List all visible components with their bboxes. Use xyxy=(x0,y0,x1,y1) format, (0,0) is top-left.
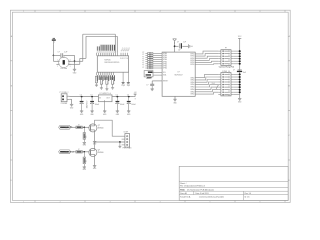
capacitor C8 (bus) xyxy=(233,69,246,74)
power symbol VCC (U2) xyxy=(173,39,177,44)
MCU U1 name labels xyxy=(105,60,120,65)
svg-text:MCP23017: MCP23017 xyxy=(175,74,183,76)
svg-text:47k: 47k xyxy=(102,81,104,84)
resistor R below MCU 1 xyxy=(95,76,99,86)
connector P4 stubs xyxy=(122,139,125,145)
ground pulldown xyxy=(83,167,87,171)
vcc bus vertical wire xyxy=(239,41,241,99)
svg-text:Pcb 4mz: Pcb 4mz xyxy=(61,68,68,70)
ground C7 xyxy=(151,88,154,90)
U2 left pin names xyxy=(163,52,168,83)
title block xyxy=(179,166,288,200)
power flag at connector xyxy=(118,142,132,150)
capacitor C1 xyxy=(58,52,69,58)
wire source to ground xyxy=(94,132,96,142)
resistor RN2 (U2 input) xyxy=(142,54,162,57)
junction U2 vcc xyxy=(174,45,176,47)
svg-text:KiCad E.D.A.: KiCad E.D.A. xyxy=(180,196,191,199)
wire power main xyxy=(69,96,98,98)
svg-text:100uF: 100uF xyxy=(120,104,125,106)
transistor Q xyxy=(89,123,104,132)
resistor RN5 (U2 input) xyxy=(142,61,162,64)
wire regulator gnd xyxy=(104,102,106,111)
wire U2 reset pin to cap xyxy=(152,80,162,82)
ground rotated right (U2 cap) xyxy=(189,44,194,48)
junction cap C2 xyxy=(81,96,83,98)
svg-text:GPB0: GPB0 xyxy=(190,56,194,58)
U2 right pin names group1 xyxy=(190,54,194,67)
pulldown resistor R xyxy=(83,152,87,167)
wire VCC to U2 xyxy=(174,41,176,52)
svg-text:eeschema (2013-mar-07)-stable: eeschema (2013-mar-07)-stable xyxy=(199,196,224,199)
svg-text:C?: C? xyxy=(177,42,179,44)
svg-text:G: G xyxy=(192,46,193,48)
MCU U1 body xyxy=(97,56,128,72)
net label slash on wire xyxy=(212,82,219,89)
svg-text:CONN_10: CONN_10 xyxy=(222,71,230,73)
svg-text:R?: R? xyxy=(142,52,144,54)
svg-text:C?: C? xyxy=(58,52,60,54)
U2 name labels xyxy=(175,72,183,77)
wires U2 to connector P3 xyxy=(195,74,218,94)
svg-text:SDA: SDA xyxy=(212,82,215,85)
svg-text:TEST: TEST xyxy=(127,47,131,53)
svg-text:UpDownRangePod: UpDownRangePod xyxy=(219,66,234,68)
svg-text:R?: R? xyxy=(142,54,144,56)
electrolytic capacitor C3 xyxy=(90,95,99,111)
wire resistor to gate xyxy=(82,151,89,153)
svg-text:+5V: +5V xyxy=(134,92,137,94)
MCU bottom pins xyxy=(96,72,115,81)
connector P2 (6 pin) xyxy=(218,48,233,66)
svg-text:C?: C? xyxy=(146,84,148,86)
svg-text:U?: U? xyxy=(178,72,180,74)
svg-text:MSP430G2553IPW20: MSP430G2553IPW20 xyxy=(105,62,120,64)
resistor R below MCU 2 xyxy=(100,78,104,90)
resistor RN7 (U2 input) xyxy=(142,65,162,68)
svg-text:GND: GND xyxy=(238,102,242,104)
series resistor R xyxy=(76,125,82,129)
wire VDD to cap node xyxy=(52,45,54,56)
wire cap to ground (rotated) xyxy=(182,45,188,47)
capacitor below MCU right 2 xyxy=(127,72,131,87)
capacitor C6 (U2 decoupling) xyxy=(177,42,186,52)
series resistor R xyxy=(76,149,82,153)
ground cap C4 xyxy=(116,111,120,116)
electrolytic capacitor C2 xyxy=(80,95,89,111)
svg-text:2: 2 xyxy=(57,66,58,68)
junction gate xyxy=(83,151,85,153)
svg-text:GND: GND xyxy=(90,114,94,116)
svg-text:C?: C? xyxy=(80,95,82,97)
svg-text:16: 16 xyxy=(126,58,128,60)
resistor RN6 (U2 input) xyxy=(142,63,162,66)
wire to capacitor C1 xyxy=(53,54,60,56)
connector P1 body xyxy=(61,94,69,105)
svg-text:R?: R? xyxy=(78,149,80,151)
svg-text:GND: GND xyxy=(103,114,107,116)
resistor RN1 (U2 input) xyxy=(142,52,162,55)
global label PWM_OUT_2 xyxy=(59,150,75,154)
wire to decoupling cap xyxy=(175,45,179,47)
wire drain xyxy=(95,142,125,148)
wire XOUT: osc to loop xyxy=(69,63,80,65)
svg-text:10k: 10k xyxy=(85,160,87,163)
MCU top pins right group xyxy=(120,47,132,60)
svg-text:RESET: RESET xyxy=(163,81,168,83)
svg-text:R?: R? xyxy=(142,56,144,58)
global label PWM_OUT1 xyxy=(59,125,74,129)
connector P3 (9 pin) xyxy=(218,71,233,96)
junction output bus xyxy=(119,141,121,143)
power symbol VCC (bus) xyxy=(238,36,242,41)
svg-text:File: DCSpeedometerPCB2.sch: File: DCSpeedometerPCB2.sch xyxy=(180,185,205,188)
junction gate xyxy=(83,126,85,128)
svg-text:12pF: 12pF xyxy=(127,85,131,87)
power flag VCC out xyxy=(134,92,137,99)
ground pulldown xyxy=(83,142,87,146)
svg-text:GND: GND xyxy=(93,144,97,146)
jumper block JP1 xyxy=(144,71,162,80)
ground bus xyxy=(238,99,242,104)
svg-text:10uF: 10uF xyxy=(243,72,247,74)
svg-text:C?: C? xyxy=(233,69,235,71)
power symbol VDD (oscillator) xyxy=(52,38,56,45)
ground cap C3 xyxy=(90,111,94,116)
svg-text:Date: 3 feb 2013: Date: 3 feb 2013 xyxy=(196,192,209,195)
wires U2 to connector P2 xyxy=(195,51,218,64)
bus junctions box1 xyxy=(234,50,241,65)
svg-text:2N7000: 2N7000 xyxy=(98,128,104,130)
svg-text:DC Summation PCB (Breakout): DC Summation PCB (Breakout) xyxy=(187,188,214,191)
wire label to resistor xyxy=(71,151,76,153)
electrolytic capacitor C4 xyxy=(116,95,125,111)
svg-text:R?: R? xyxy=(78,125,80,127)
ground source xyxy=(93,166,97,170)
svg-text:GPB0: GPB0 xyxy=(190,58,194,60)
wire regulator output xyxy=(112,96,134,98)
wire source to ground xyxy=(94,156,96,165)
svg-text:Size: A4: Size: A4 xyxy=(180,192,186,195)
svg-text:GND: GND xyxy=(83,169,87,171)
svg-text:GND: GND xyxy=(80,114,84,116)
wire node down to ground xyxy=(74,55,76,69)
svg-text:Title:: Title: xyxy=(180,188,185,191)
svg-text:GND: GND xyxy=(116,114,120,116)
junction cap C5 xyxy=(128,96,130,98)
svg-text:C?: C? xyxy=(90,95,92,97)
svg-text:10k: 10k xyxy=(149,68,152,70)
ground source xyxy=(93,141,97,145)
svg-text:1uF: 1uF xyxy=(178,49,181,51)
pulldown resistor R xyxy=(83,127,87,142)
wire P1 pin2 to ground xyxy=(69,98,71,100)
page border frame inner xyxy=(12,12,288,200)
svg-text:OUT: OUT xyxy=(106,98,109,100)
svg-text:R?: R? xyxy=(142,61,144,63)
svg-text:R?: R? xyxy=(142,67,144,69)
ground P1 xyxy=(70,104,74,109)
regulator U3 body xyxy=(98,95,112,102)
resistor RN8 (U2 input) xyxy=(142,67,162,70)
svg-text:C?: C? xyxy=(116,95,118,97)
svg-text:100uF: 100uF xyxy=(131,104,136,106)
svg-text:C?: C? xyxy=(127,95,129,97)
ground U2 xyxy=(173,99,177,104)
U2 right pin names group2 xyxy=(190,76,194,95)
resistor RN3 (U2 input) xyxy=(142,56,162,59)
svg-text:GND: GND xyxy=(73,72,77,74)
svg-text:1uF: 1uF xyxy=(183,42,186,44)
svg-text:R?: R? xyxy=(142,65,144,67)
svg-text:VCC: VCC xyxy=(238,36,242,38)
svg-text:100uF: 100uF xyxy=(95,104,100,106)
bus junctions box2 xyxy=(234,73,241,94)
svg-text:GPB0: GPB0 xyxy=(190,62,194,64)
svg-text:Q?: Q? xyxy=(98,125,100,127)
wire osc left pin xyxy=(52,55,54,61)
svg-text:.1uF: .1uF xyxy=(64,52,68,54)
svg-text:GND: GND xyxy=(93,168,97,170)
svg-text:GND: GND xyxy=(173,102,177,104)
svg-text:100uF/16V: 100uF/16V xyxy=(86,100,88,109)
frame zone ticks and labels xyxy=(10,10,290,203)
svg-text:Rev: 1.0: Rev: 1.0 xyxy=(245,193,252,195)
svg-text:GPB0: GPB0 xyxy=(190,64,194,66)
svg-text:2N7000: 2N7000 xyxy=(98,152,104,154)
U2 body xyxy=(162,52,195,96)
junction cap C4 xyxy=(117,96,119,98)
junction cap left xyxy=(53,55,55,57)
svg-text:GPB0: GPB0 xyxy=(190,60,194,62)
transistor Q xyxy=(89,148,104,157)
wire resistor to gate xyxy=(82,126,89,128)
MCU top pins left group xyxy=(97,45,118,56)
capacitor below MCU right 1 xyxy=(121,72,125,87)
capacitor C7 (reset) xyxy=(146,84,154,89)
svg-text:GND: GND xyxy=(83,145,87,147)
svg-text:R?: R? xyxy=(142,63,144,65)
wire XIN: osc to loop xyxy=(69,60,83,62)
oscillator X1 xyxy=(56,57,71,70)
ground (oscillator) xyxy=(73,69,77,74)
resistor RN4 (U2 input) xyxy=(142,58,162,61)
svg-text:47k: 47k xyxy=(113,81,115,84)
osc pin numbers xyxy=(57,60,70,68)
page border frame outer xyxy=(10,10,290,202)
svg-text:X?: X? xyxy=(63,57,65,59)
svg-text:P?: P? xyxy=(225,48,227,50)
svg-text:GND: GND xyxy=(127,114,131,116)
svg-text:Id: 1/1: Id: 1/1 xyxy=(245,197,250,199)
junction cap C3 xyxy=(91,96,93,98)
ground cap C5 xyxy=(127,111,131,116)
svg-text:MSP430: MSP430 xyxy=(105,60,111,62)
svg-text:GPB0: GPB0 xyxy=(190,54,194,56)
svg-text:10k: 10k xyxy=(85,135,87,138)
resistor R below MCU 3 xyxy=(105,78,109,91)
svg-text:12pF: 12pF xyxy=(121,85,125,87)
svg-text:R?: R? xyxy=(142,58,144,60)
svg-text:47k: 47k xyxy=(97,79,99,82)
ground regulator xyxy=(103,111,107,116)
wire label to resistor xyxy=(71,126,76,128)
svg-text:3: 3 xyxy=(70,66,71,68)
electrolytic capacitor C5 xyxy=(127,95,136,111)
connector P4 output xyxy=(123,131,129,147)
svg-text:47k: 47k xyxy=(108,81,110,84)
wire drain xyxy=(95,120,125,136)
svg-text:SCL: SCL xyxy=(163,72,166,74)
svg-text:Q?: Q? xyxy=(98,150,100,152)
svg-text:POWER: POWER xyxy=(61,103,68,105)
junction XIN node xyxy=(74,60,76,62)
wire cap to node xyxy=(63,54,74,56)
ground cap C2 xyxy=(80,111,84,116)
svg-text:CON?: CON? xyxy=(123,131,128,133)
resistor R below MCU 4 xyxy=(111,78,115,90)
wire U2 ground pin xyxy=(174,96,176,99)
svg-text:GND: GND xyxy=(70,107,74,109)
